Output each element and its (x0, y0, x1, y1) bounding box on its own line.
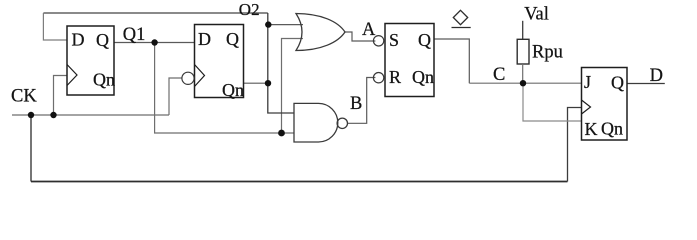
wire Val lead down to resistor (522, 21, 524, 40)
junction CK/bottom rail (28, 112, 34, 118)
svg-text:Q1: Q1 (123, 25, 146, 45)
svg-text:D: D (72, 30, 85, 50)
svg-text:K: K (585, 119, 598, 139)
wire latch Q output step down to node C (434, 39, 469, 83)
open-collector diamond symbol (453, 10, 467, 24)
wire bottom rail (31, 181, 568, 183)
S input bubble (373, 36, 383, 46)
svg-text:A: A (362, 20, 376, 40)
wire Q1 branch down and right to NAND lower input (155, 43, 294, 134)
wire O2 vertical with taps (268, 13, 294, 113)
wire riser from Q1 rail to OR lower input (282, 39, 304, 134)
wire CK riser to bottom rail (30, 115, 32, 182)
svg-text:Qn: Qn (412, 67, 434, 87)
FF2 clock wedge (195, 65, 205, 87)
svg-text:R: R (389, 67, 401, 87)
svg-text:S: S (389, 30, 399, 50)
svg-text:Q: Q (96, 30, 109, 50)
junction Q1 rail/OR riser (278, 130, 285, 137)
resistor Rpu (517, 39, 529, 64)
svg-text:D: D (198, 29, 211, 49)
FF2 clock bubble (182, 72, 194, 84)
junction node Q1 (151, 39, 157, 45)
wire CK riser to FF2 clock bubble (169, 78, 182, 115)
wire NAND output to R bubble (node B) (348, 78, 376, 124)
junction O2/OR input (265, 21, 271, 27)
wire bottom rail riser to JK clock (568, 108, 582, 182)
svg-text:J: J (584, 72, 591, 92)
wire node C line to JK J input (469, 82, 581, 84)
svg-text:CK: CK (11, 87, 37, 107)
JK flip-flop box (582, 68, 628, 141)
D flip-flop FF2 box (195, 25, 244, 98)
svg-text:C: C (493, 65, 505, 85)
svg-text:Q: Q (226, 29, 239, 49)
open-collector symbol underline (452, 27, 471, 29)
wire top feedback from O2 to FF1 D input (43, 12, 267, 14)
SR latch box (385, 24, 434, 97)
svg-text:Q: Q (611, 73, 624, 93)
wire Q1 from FF1 Q to FF2 D (114, 42, 195, 44)
wire O2 tap to OR upper input (268, 24, 303, 26)
svg-text:Qn: Qn (601, 119, 623, 139)
svg-text:Qn: Qn (222, 80, 244, 100)
OR gate U1 (296, 14, 345, 51)
wire FF2 Qn output to O2 vertical (244, 82, 268, 84)
junction node C (520, 80, 526, 86)
svg-text:Val: Val (524, 5, 549, 25)
JK clock wedge (582, 100, 591, 114)
svg-text:Qn: Qn (93, 70, 115, 90)
junction O2/FF2 Qn (265, 80, 271, 86)
wire CK input lead (12, 114, 169, 116)
svg-text:B: B (350, 94, 362, 114)
wire node C branch down to JK K input (523, 83, 582, 121)
R input bubble (373, 73, 383, 83)
wire feedback drop to FF1 D pin (43, 13, 67, 40)
wire OR output jog to S bubble (node A) (345, 32, 375, 41)
svg-text:D: D (650, 66, 663, 86)
junction CK/FF1 clock (50, 112, 56, 118)
NAND gate U2 body (294, 103, 338, 142)
svg-text:Rpu: Rpu (532, 43, 563, 63)
NAND output bubble (337, 118, 347, 128)
svg-text:Q: Q (418, 30, 431, 50)
svg-text:O2: O2 (239, 0, 260, 19)
D flip-flop FF1 box (67, 26, 114, 95)
wire JK Q output to node D (627, 83, 665, 85)
wire resistor bottom to node C (522, 64, 524, 83)
wire CK riser to FF1 clock (54, 76, 68, 116)
FF1 clock wedge (67, 65, 77, 86)
